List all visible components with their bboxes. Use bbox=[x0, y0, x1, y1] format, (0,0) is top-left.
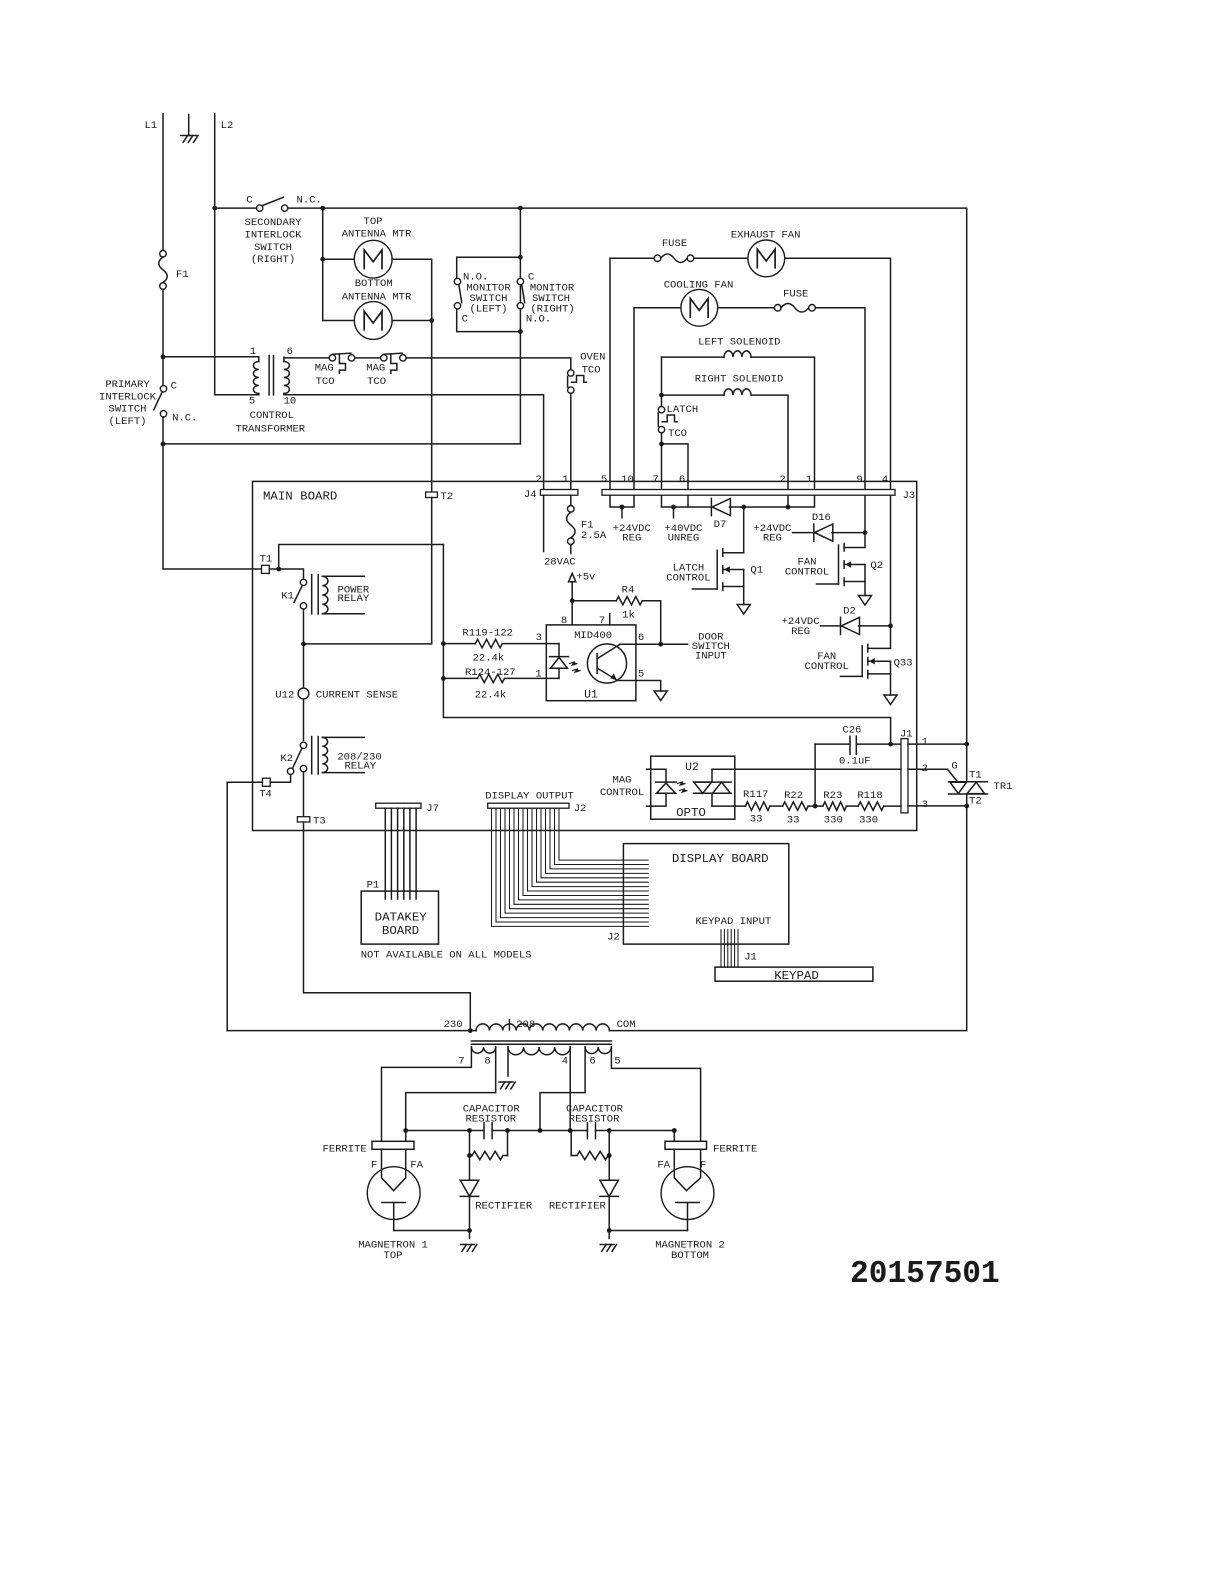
svg-text:OPTO: OPTO bbox=[676, 806, 706, 820]
svg-text:EXHAUST FAN: EXHAUST FAN bbox=[731, 229, 801, 241]
svg-text:N.C.: N.C. bbox=[297, 195, 322, 207]
svg-text:U12: U12 bbox=[275, 689, 294, 701]
resistor R119-122 bbox=[443, 639, 559, 647]
svg-text:F: F bbox=[371, 1160, 377, 1172]
wire to D2 bbox=[821, 625, 841, 627]
label U1 pin 7 stub bbox=[599, 614, 610, 627]
svg-text:2: 2 bbox=[535, 474, 541, 486]
label monitor switch left bbox=[462, 271, 512, 325]
wire cooling fan to fuse bbox=[719, 307, 775, 309]
label pin 4 bbox=[562, 1056, 568, 1068]
svg-text:R118: R118 bbox=[857, 790, 882, 802]
label fan control (Q33) bbox=[805, 651, 849, 673]
label top antenna mtr bbox=[342, 216, 412, 241]
svg-text:208: 208 bbox=[516, 1019, 535, 1031]
label display board bbox=[672, 852, 769, 866]
op-amp U1 box (MID400 opto) bbox=[546, 625, 636, 702]
svg-text:Q33: Q33 bbox=[894, 658, 913, 670]
svg-text:TR1: TR1 bbox=[994, 781, 1013, 793]
svg-text:SECONDARY: SECONDARY bbox=[245, 217, 303, 229]
svg-text:RECTIFIER: RECTIFIER bbox=[549, 1200, 607, 1212]
wire HV filament rail bbox=[403, 1128, 676, 1133]
svg-text:8: 8 bbox=[561, 615, 567, 627]
diode D2 bbox=[841, 606, 860, 635]
wire Q1 drain bbox=[743, 507, 745, 553]
svg-text:T3: T3 bbox=[313, 816, 326, 828]
svg-text:4: 4 bbox=[882, 474, 888, 486]
wire exhaust fan branch (J3 pin 5 up) bbox=[610, 258, 654, 489]
monitor switch box bbox=[457, 255, 523, 334]
wire latch TCO top bbox=[661, 357, 663, 406]
svg-text:F1: F1 bbox=[176, 269, 189, 281]
wire L1 line bbox=[162, 114, 164, 251]
label U1 pin 1 bbox=[535, 669, 541, 681]
svg-text:28VAC: 28VAC bbox=[544, 556, 576, 568]
wire J1 pin 2 to triac gate bbox=[908, 761, 958, 782]
magnetron 2 bbox=[661, 1149, 714, 1230]
svg-text:K2: K2 bbox=[280, 753, 293, 765]
svg-text:FUSE: FUSE bbox=[783, 288, 808, 300]
ground (HV transformer) bbox=[499, 1082, 515, 1089]
svg-text:+5v: +5v bbox=[576, 571, 595, 583]
svg-text:K1: K1 bbox=[281, 590, 294, 602]
svg-text:4: 4 bbox=[562, 1056, 568, 1068]
svg-text:(LEFT): (LEFT) bbox=[109, 416, 147, 428]
svg-text:7: 7 bbox=[599, 615, 605, 627]
svg-text:REG: REG bbox=[763, 533, 782, 545]
label cooling fan bbox=[664, 279, 734, 291]
svg-text:6: 6 bbox=[679, 474, 685, 486]
HV transformer secondary 7-8 bbox=[471, 1047, 495, 1053]
svg-text:1: 1 bbox=[806, 474, 812, 486]
label not available on all models bbox=[361, 949, 532, 961]
motor: top antenna bbox=[354, 240, 392, 278]
fuse F1 (line fuse) bbox=[159, 250, 189, 289]
ground (Q33) bbox=[884, 695, 897, 705]
svg-text:20157501: 20157501 bbox=[850, 1257, 1000, 1292]
wire +5v node to R4 and U1 pin 8 bbox=[570, 598, 617, 625]
svg-text:7: 7 bbox=[458, 1056, 464, 1068]
wire latch TCO to J3 pins 7 and 6 bbox=[659, 433, 688, 490]
U2 output triac bbox=[694, 769, 732, 806]
label 28VAC bbox=[544, 556, 576, 568]
label capacitor resistor (right) bbox=[566, 1104, 624, 1126]
label latch TCO bbox=[667, 404, 699, 440]
datakey board box P1 bbox=[361, 879, 438, 944]
fuse (cooling fan) bbox=[774, 288, 815, 312]
diode D16 bbox=[812, 512, 833, 541]
motor: exhaust fan bbox=[748, 240, 785, 277]
wire R23 to R118 bbox=[847, 805, 859, 807]
node 230 junction bbox=[468, 1028, 473, 1033]
svg-text:L2: L2 bbox=[221, 120, 234, 132]
svg-text:D16: D16 bbox=[812, 512, 831, 524]
svg-text:CONTROL: CONTROL bbox=[250, 410, 294, 422]
ferrite 2 bbox=[665, 1141, 757, 1155]
wire R117 to R22 bbox=[770, 805, 783, 807]
wire right solenoid (J3 pin 2) bbox=[659, 393, 788, 490]
svg-text:230: 230 bbox=[444, 1019, 463, 1031]
ferrite 1 bbox=[322, 1141, 414, 1155]
label magnetron 1 bbox=[358, 1240, 428, 1262]
chassis ground (line input) bbox=[181, 115, 198, 143]
switch: monitor (left) bbox=[454, 278, 462, 309]
svg-text:SWITCH: SWITCH bbox=[254, 242, 292, 254]
svg-text:G: G bbox=[951, 761, 957, 773]
resistor R23 bbox=[823, 790, 847, 827]
svg-text:33: 33 bbox=[750, 813, 763, 825]
svg-text:D2: D2 bbox=[843, 606, 856, 618]
connector J7 bbox=[376, 803, 439, 815]
label +24VDC REG (D16) bbox=[753, 523, 791, 545]
wire pin 8 to FA junction bbox=[406, 1047, 496, 1141]
label keypad input bbox=[695, 916, 771, 928]
U1 light arrows bbox=[570, 662, 581, 673]
wire keypad ribbon J1 (6 lines) bbox=[721, 930, 757, 967]
wire J1 pin 3 to triac T2 bbox=[908, 804, 969, 809]
svg-text:CONTROL: CONTROL bbox=[805, 661, 849, 673]
svg-text:TRANSFORMER: TRANSFORMER bbox=[235, 423, 305, 435]
wire pin 4 to HV rail bbox=[569, 1047, 571, 1131]
wire K2 NO contact to T3 bbox=[304, 772, 471, 1031]
svg-text:5: 5 bbox=[638, 669, 644, 681]
label 22.4k (R119) bbox=[473, 653, 505, 665]
label display output bbox=[485, 790, 574, 802]
wire L1 to N.C. junction bbox=[161, 417, 262, 569]
wire T1 node bbox=[269, 545, 443, 580]
svg-text:(LEFT): (LEFT) bbox=[470, 303, 508, 315]
wire magnetron 1 anode bbox=[394, 1228, 472, 1233]
svg-text:Q2: Q2 bbox=[870, 560, 883, 572]
svg-text:INTERLOCK: INTERLOCK bbox=[245, 230, 303, 242]
svg-text:3: 3 bbox=[536, 632, 542, 644]
label datakey board bbox=[375, 911, 428, 938]
svg-text:J2: J2 bbox=[574, 803, 587, 815]
transistor Q1 bbox=[692, 549, 763, 591]
svg-text:N.C.: N.C. bbox=[172, 412, 197, 424]
keypad box bbox=[715, 967, 873, 983]
svg-text:LEFT SOLENOID: LEFT SOLENOID bbox=[698, 336, 780, 348]
connector J2 (display output) bbox=[488, 803, 587, 815]
wire left solenoid (J3 pin 1) bbox=[662, 357, 815, 489]
wire 230 feed bbox=[227, 1030, 470, 1032]
label 230 208 COM bbox=[444, 1019, 636, 1031]
label F FA (left) bbox=[371, 1160, 424, 1172]
HV transformer secondary middle bbox=[508, 1047, 570, 1055]
label magnetron 2 bbox=[655, 1240, 725, 1262]
wire D7 to J3 pins 2,1 bbox=[729, 495, 814, 509]
svg-text:5: 5 bbox=[601, 474, 607, 486]
resistor R22 bbox=[783, 790, 809, 827]
wire Q1 source to ground bbox=[743, 587, 745, 605]
wire C26 left drop to resistor chain bbox=[814, 744, 816, 806]
wire L2 line bbox=[214, 114, 216, 395]
svg-text:COM: COM bbox=[617, 1019, 636, 1031]
svg-text:330: 330 bbox=[859, 814, 878, 826]
label MAG TCO 1 bbox=[315, 363, 335, 388]
HV transformer secondary 6-5 bbox=[585, 1047, 611, 1054]
terminal T2 bbox=[426, 491, 454, 503]
label left solenoid bbox=[698, 336, 780, 348]
svg-text:C: C bbox=[246, 195, 252, 207]
label 22.4k (R124) bbox=[475, 690, 507, 702]
svg-text:KEYPAD INPUT: KEYPAD INPUT bbox=[695, 916, 771, 928]
svg-text:RELAY: RELAY bbox=[338, 593, 370, 605]
svg-text:FERRITE: FERRITE bbox=[322, 1144, 366, 1156]
svg-text:2.5A: 2.5A bbox=[581, 530, 607, 542]
svg-text:J1: J1 bbox=[900, 729, 913, 741]
svg-text:FA: FA bbox=[410, 1160, 423, 1172]
svg-text:MAG: MAG bbox=[613, 775, 632, 787]
svg-text:RELAY: RELAY bbox=[344, 761, 376, 773]
wire magnetron 2 anode bbox=[607, 1131, 688, 1233]
label U1 pin 5 bbox=[638, 669, 644, 681]
coil right solenoid bbox=[724, 389, 751, 395]
svg-text:FA: FA bbox=[657, 1160, 670, 1172]
svg-text:6: 6 bbox=[638, 632, 644, 644]
svg-text:C: C bbox=[171, 380, 177, 392]
svg-text:C26: C26 bbox=[842, 724, 861, 736]
svg-text:330: 330 bbox=[824, 814, 843, 826]
wire K1 node to T2 line bbox=[304, 498, 432, 644]
svg-text:P1: P1 bbox=[367, 879, 380, 891]
svg-text:R4: R4 bbox=[622, 585, 635, 597]
label 208/230 relay bbox=[337, 751, 381, 772]
U1 internal LED bbox=[550, 644, 569, 679]
svg-text:6: 6 bbox=[287, 346, 293, 358]
switch: monitor (right) bbox=[517, 278, 525, 309]
terminal T1 bbox=[260, 553, 273, 573]
label door switch input bbox=[692, 631, 730, 662]
resistor R124-127 bbox=[443, 674, 559, 682]
svg-text:MID400: MID400 bbox=[574, 630, 612, 642]
svg-text:6: 6 bbox=[589, 1056, 595, 1068]
label latch control bbox=[666, 563, 710, 585]
relay K2 contacts bbox=[280, 742, 306, 774]
wire middle winding to ground bbox=[507, 1047, 509, 1076]
wire J3 pin 4 to D2/Q33 drain bbox=[859, 495, 893, 648]
wire +40VDC UNREG bridge (J3 pins 7,6) bbox=[662, 495, 689, 518]
wire R22 to R23 junction bbox=[808, 804, 823, 809]
svg-text:UNREG: UNREG bbox=[668, 533, 700, 545]
svg-text:33: 33 bbox=[787, 814, 800, 826]
wire C26 junction to J1 pin 1 bbox=[888, 742, 893, 747]
svg-text:LATCH: LATCH bbox=[667, 404, 699, 416]
wire U1 pin 6 (door switch input) bbox=[620, 642, 688, 647]
wire T4 to K2 common bbox=[227, 775, 290, 1031]
main board outline bbox=[253, 481, 917, 830]
wire J2 ribbon (16 lines) bbox=[492, 808, 649, 926]
svg-text:0.1uF: 0.1uF bbox=[839, 756, 871, 768]
svg-text:MAG: MAG bbox=[315, 363, 334, 375]
resistor R117 bbox=[743, 789, 770, 826]
wire R119 net vertical bbox=[441, 545, 891, 745]
svg-text:N.O.: N.O. bbox=[526, 314, 551, 326]
switch: primary interlock (left) bbox=[154, 380, 198, 424]
label MAG TCO 2 bbox=[366, 363, 386, 388]
wire fuse to exhaust fan bbox=[694, 257, 747, 259]
label +24VDC REG (left) bbox=[613, 523, 651, 545]
svg-text:J1: J1 bbox=[744, 951, 757, 963]
svg-text:J4: J4 bbox=[524, 489, 537, 501]
svg-text:9: 9 bbox=[856, 474, 862, 486]
resistor (snubber 1) bbox=[467, 1131, 507, 1160]
svg-text:REG: REG bbox=[791, 626, 810, 638]
svg-text:DATAKEY: DATAKEY bbox=[375, 911, 428, 925]
wire L2 net top (to triac T1) bbox=[212, 206, 966, 744]
ground (U1 pin 5) bbox=[654, 691, 667, 701]
svg-text:CONTROL: CONTROL bbox=[600, 787, 644, 799]
svg-text:TOP: TOP bbox=[364, 216, 383, 228]
resistor R4 bbox=[616, 585, 660, 645]
svg-text:ANTENNA MTR: ANTENNA MTR bbox=[342, 292, 412, 304]
svg-text:CONTROL: CONTROL bbox=[785, 566, 829, 578]
label J1 pins 1 2 3 bbox=[922, 736, 928, 811]
wire transformer pin 5 to L2 bbox=[215, 394, 259, 396]
U2 light arrows bbox=[678, 782, 688, 793]
svg-text:RESISTOR: RESISTOR bbox=[569, 1114, 620, 1126]
capacitor C26 bbox=[815, 724, 901, 767]
motor: bottom antenna bbox=[354, 302, 392, 340]
switch: MAG TCO 1 bbox=[329, 353, 355, 373]
label fan control (Q2) bbox=[785, 556, 829, 578]
wire fuse to J3 pin 9 bbox=[815, 308, 865, 490]
opto U2 box bbox=[651, 756, 735, 820]
relay K1 coil (power relay) bbox=[312, 575, 365, 614]
wire bottom motor left lead bbox=[323, 320, 355, 322]
svg-text:U1: U1 bbox=[584, 690, 598, 702]
svg-text:TCO: TCO bbox=[367, 376, 386, 388]
wire MAG TCO 2 to oven TCO bbox=[406, 358, 571, 370]
svg-text:DISPLAY OUTPUT: DISPLAY OUTPUT bbox=[485, 790, 574, 802]
wire L1 interlock output (monitor net) bbox=[163, 443, 520, 445]
svg-text:OVEN: OVEN bbox=[580, 352, 605, 364]
label secondary interlock bbox=[245, 217, 303, 266]
relay K2 coil (208/230 relay) bbox=[312, 737, 365, 774]
label oven TCO bbox=[580, 352, 605, 377]
wire L1 fuse to interlock bbox=[162, 289, 164, 385]
label R119-122 bbox=[462, 628, 513, 640]
motor: cooling fan bbox=[681, 289, 718, 326]
svg-text:R23: R23 bbox=[823, 790, 842, 802]
label control transformer pins bbox=[249, 346, 296, 408]
terminal T3 bbox=[297, 816, 325, 828]
label mag control bbox=[600, 775, 644, 799]
coil left solenoid bbox=[724, 351, 751, 357]
wire D16 to J3 pin 9 / Q2 bbox=[832, 495, 868, 547]
HV transformer primary bbox=[470, 1020, 609, 1031]
svg-text:TCO: TCO bbox=[668, 428, 687, 440]
svg-text:J2: J2 bbox=[607, 932, 620, 944]
svg-text:BOARD: BOARD bbox=[382, 924, 419, 938]
switch: oven TCO bbox=[568, 370, 587, 394]
capacitor (snubber 2) bbox=[587, 1123, 595, 1139]
label pins 7 8 bbox=[458, 1056, 490, 1068]
wire transformer pin 10 to J4 pin 2 bbox=[284, 395, 544, 490]
ground (magnetron 2 circuit) bbox=[600, 1231, 616, 1252]
fuse F1 2.5A bbox=[567, 495, 607, 553]
label +40VDC UNREG bbox=[664, 523, 702, 545]
label J4 pin numbers bbox=[535, 474, 568, 486]
diode D7 bbox=[711, 498, 730, 531]
svg-text:1: 1 bbox=[922, 736, 928, 748]
ground (Q2) bbox=[859, 596, 872, 606]
rectifier 2 bbox=[600, 1156, 618, 1231]
wire +24VDC REG bridge (J3 pins 5,10) bbox=[610, 495, 634, 518]
svg-text:MAIN BOARD: MAIN BOARD bbox=[263, 490, 337, 504]
svg-text:PRIMARY: PRIMARY bbox=[105, 379, 150, 391]
svg-text:RESISTOR: RESISTOR bbox=[465, 1114, 516, 1126]
transistor Q33 bbox=[841, 644, 913, 678]
svg-text:T1: T1 bbox=[260, 553, 273, 565]
svg-text:22.4k: 22.4k bbox=[473, 653, 505, 665]
label J2 (display board side) bbox=[607, 932, 620, 944]
svg-text:8: 8 bbox=[484, 1056, 490, 1068]
wire U2 to J1 pin 2 bbox=[712, 768, 901, 770]
fuse (exhaust fan) bbox=[654, 238, 694, 262]
wire triac T2 to COM bbox=[609, 806, 966, 1031]
svg-text:2: 2 bbox=[779, 474, 785, 486]
label rectifier (right) bbox=[549, 1200, 607, 1212]
svg-text:T2: T2 bbox=[441, 491, 454, 503]
svg-text:J3: J3 bbox=[903, 490, 916, 502]
wire to D16 bbox=[793, 532, 814, 534]
control transformer T-CTRL bbox=[253, 356, 289, 395]
svg-text:U2: U2 bbox=[685, 762, 699, 774]
svg-text:7: 7 bbox=[652, 474, 658, 486]
wire transformer pin 6 to MAG TCOs bbox=[284, 356, 329, 359]
wire bottom motor to bus junction bbox=[392, 318, 434, 323]
svg-text:J7: J7 bbox=[426, 803, 439, 815]
U2 internal LED bbox=[656, 782, 677, 793]
node L2 bbox=[221, 120, 234, 132]
switch: MAG TCO 2 bbox=[381, 353, 407, 373]
label primary interlock bbox=[99, 379, 157, 428]
wire pin 7 to ferrite F bbox=[382, 1047, 472, 1141]
HV transformer core bbox=[471, 1041, 611, 1044]
label +5v supply arrow bbox=[569, 571, 596, 600]
node L1 bbox=[144, 120, 157, 132]
svg-text:RECTIFIER: RECTIFIER bbox=[475, 1200, 533, 1212]
wire R118 to J1 pin 3 bbox=[884, 805, 901, 807]
svg-text:TOP: TOP bbox=[384, 1250, 403, 1262]
label U1 pin 6 bbox=[638, 632, 644, 644]
rectifier 1 bbox=[460, 1156, 478, 1231]
svg-text:10: 10 bbox=[621, 474, 634, 486]
terminal T4 bbox=[259, 778, 272, 800]
U1 phototransistor bbox=[587, 644, 626, 683]
svg-text:D7: D7 bbox=[714, 519, 727, 531]
label power relay bbox=[338, 585, 370, 605]
svg-text:1: 1 bbox=[250, 346, 256, 358]
magnetron 1 bbox=[367, 1149, 420, 1230]
svg-text:L1: L1 bbox=[144, 120, 157, 132]
svg-text:INPUT: INPUT bbox=[695, 651, 727, 663]
svg-text:NOT AVAILABLE ON ALL MODELS: NOT AVAILABLE ON ALL MODELS bbox=[361, 949, 532, 961]
label exhaust fan bbox=[731, 229, 801, 241]
transistor Q2 bbox=[817, 544, 884, 586]
wire Q33 source to ground bbox=[890, 674, 892, 695]
svg-text:RIGHT SOLENOID: RIGHT SOLENOID bbox=[695, 373, 784, 385]
svg-text:DISPLAY BOARD: DISPLAY BOARD bbox=[672, 852, 769, 866]
svg-text:ANTENNA MTR: ANTENNA MTR bbox=[342, 229, 412, 241]
wire pin 5 to ferrite F2 bbox=[611, 1047, 700, 1141]
svg-text:C: C bbox=[462, 314, 468, 326]
svg-text:10: 10 bbox=[284, 396, 297, 408]
wire monitor vertical to L1 net bbox=[519, 208, 521, 444]
label main board bbox=[263, 490, 337, 504]
display board box bbox=[623, 844, 788, 945]
